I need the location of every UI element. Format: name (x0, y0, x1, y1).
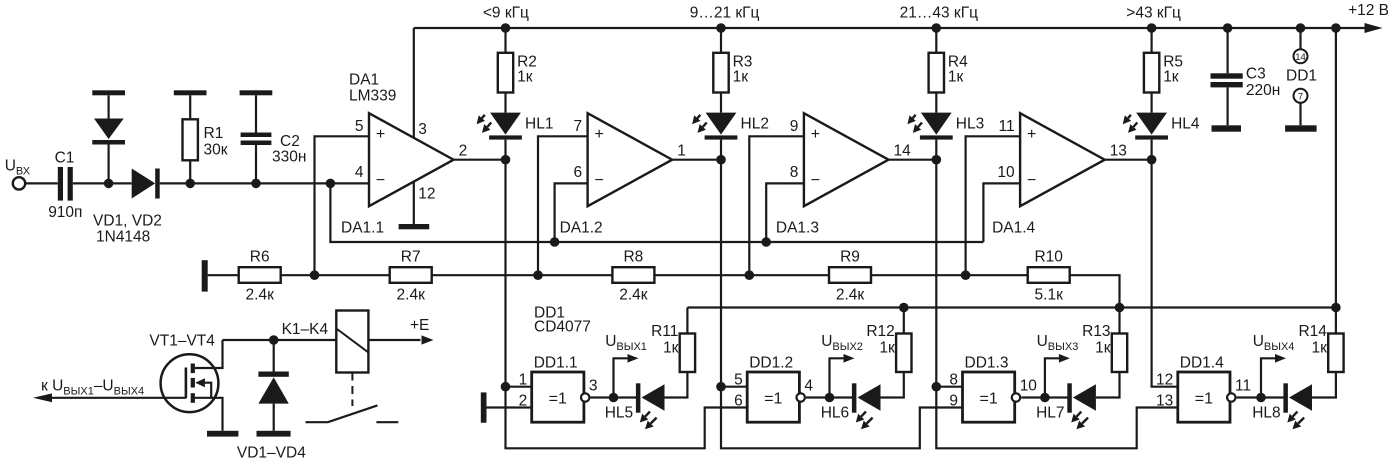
svg-text:HL2: HL2 (741, 116, 769, 133)
node DD1.3 input A junction (932, 382, 942, 392)
svg-text:C3: C3 (1246, 66, 1266, 83)
svg-text:6: 6 (734, 393, 743, 410)
svg-text:910п: 910п (48, 204, 82, 221)
svg-text:R11: R11 (651, 323, 678, 340)
LED HL8 light arrow 1 (1293, 412, 1298, 417)
wire ground to R6 (208, 274, 239, 276)
LED HL6 light arrow 2 (867, 418, 873, 424)
wire ground to R1 (189, 95, 191, 119)
wire DD1.4 output to LED HL8 (1237, 396, 1285, 398)
node bus junction R12 (899, 303, 909, 313)
node rail junction column 4 (1147, 23, 1157, 33)
svg-text:2: 2 (459, 142, 468, 159)
LED HL4 (1136, 113, 1167, 135)
diode VD1 (94, 119, 124, 140)
svg-text:−: − (376, 172, 385, 189)
svg-text:LM339: LM339 (349, 88, 396, 105)
ground bar MOSFET source (207, 431, 238, 437)
svg-text:1: 1 (677, 142, 686, 159)
arrow к Uвых1–Uвых4 (33, 393, 52, 402)
ground bar above C2 (240, 90, 273, 95)
logic gate DD1.4 XNOR (1178, 372, 1230, 422)
wire HL7 to R13 (1096, 372, 1120, 398)
wire rail to R3 (720, 28, 722, 53)
resistor R2 (498, 53, 513, 93)
wire R3 to HL2 (720, 93, 722, 113)
svg-text:=1: =1 (764, 391, 782, 408)
ground bar VD1–VD4 (257, 431, 291, 437)
node output DD1.3 junction (1040, 393, 1050, 403)
wire output tap Uвых2 (830, 358, 845, 397)
svg-text:HL1: HL1 (525, 116, 553, 133)
node C2 junction (251, 179, 261, 189)
svg-text:HL5: HL5 (605, 405, 633, 422)
wire body to source (205, 383, 211, 398)
LED HL3 (921, 113, 952, 135)
svg-text:R1: R1 (204, 125, 224, 142)
svg-text:R7: R7 (401, 249, 421, 266)
wire DD1.2 input A stub (721, 386, 747, 388)
svg-text:R13: R13 (1082, 323, 1110, 340)
svg-text:R12: R12 (866, 323, 894, 340)
capacitor C1 right plate (68, 167, 73, 201)
ground bar above R1 (174, 90, 207, 95)
wire rail to DD1 pin 14 (1299, 28, 1301, 49)
node VD1 junction (104, 179, 114, 189)
svg-text:=1: =1 (549, 391, 567, 408)
svg-text:=1: =1 (979, 391, 997, 408)
svg-text:12: 12 (1156, 372, 1173, 389)
resistor R5 (1144, 53, 1159, 93)
svg-text:−: − (811, 172, 820, 189)
wire column 2 output to DD1.2 input (720, 160, 722, 387)
node signal tap to minus bus (326, 179, 336, 189)
LED HL1 light arrow 1 (482, 115, 485, 118)
LED HL7 cathode bar (1067, 383, 1072, 412)
wire gate to output arrow (52, 397, 186, 399)
wire ground to C2 (255, 95, 257, 132)
ground bar under C3 (1212, 125, 1242, 131)
svg-text:CD4077: CD4077 (534, 319, 591, 336)
wire rail to R2 (504, 28, 506, 53)
MOSFET source stub (191, 393, 195, 403)
node divider junction DA1.3 (745, 270, 755, 280)
svg-text:−: − (1027, 172, 1036, 189)
svg-text:1к: 1к (948, 69, 964, 86)
power pin 7 DD1 (1294, 89, 1308, 103)
node DD1.1 input A junction (501, 382, 511, 392)
wire HL6 to R12 (881, 372, 904, 398)
logic gate DD1.2 XNOR (747, 372, 799, 422)
svg-text:5: 5 (355, 118, 364, 135)
MOSFET body arrow (195, 378, 205, 387)
LED HL5 light arrow 1 (645, 412, 650, 417)
svg-text:HL7: HL7 (1036, 405, 1064, 422)
resistor R9 (829, 267, 871, 283)
wire DD1 pin 7 to ground (1299, 103, 1301, 126)
wire ground to VD1 anode (107, 95, 109, 118)
svg-text:1N4148: 1N4148 (96, 229, 150, 246)
LED HL7 light arrow 1 (1077, 412, 1082, 417)
diode VD2 (132, 169, 156, 199)
svg-text:10: 10 (997, 164, 1015, 181)
svg-text:220н: 220н (1246, 82, 1280, 99)
wire DA1.1 pin 3 to +12V rail (413, 28, 415, 138)
LED HL8 light arrow 2 (1298, 418, 1304, 424)
svg-text:VD1, VD2: VD1, VD2 (93, 213, 162, 230)
svg-text:13: 13 (1110, 142, 1127, 159)
wire DD1.3 output to LED HL7 (1021, 396, 1068, 398)
LED HL2 (706, 113, 737, 135)
ground bar above VD1 (92, 90, 125, 95)
wire node to VD1–VD4 cathode (273, 340, 275, 372)
svg-text:11: 11 (1235, 378, 1251, 395)
svg-text:=1: =1 (1195, 391, 1213, 408)
LED HL5 (642, 384, 665, 410)
inverting bubble DD1.3 output (1012, 393, 1020, 401)
resistor R6 (239, 267, 281, 283)
capacitor C2 bottom plate (241, 141, 272, 146)
arrow Uвых2 (844, 354, 855, 363)
svg-text:7: 7 (573, 118, 582, 135)
resistor R13 (1112, 334, 1127, 373)
resistor R4 (929, 53, 944, 93)
node rail junction DD1 pin 14 (1296, 23, 1306, 33)
svg-text:1к: 1к (1163, 69, 1179, 86)
svg-text:330н: 330н (272, 149, 306, 166)
wire column 2 chain to DD1.3 input B (721, 387, 963, 449)
relay coil K1–K4 (336, 311, 368, 373)
node output DD1.2 junction (825, 393, 835, 403)
LED HL6 (858, 384, 881, 410)
svg-text:DD1.2: DD1.2 (749, 354, 793, 371)
wire R7 to R8 (432, 274, 613, 276)
node divider junction DA1.1 (310, 270, 320, 280)
LED HL8 (1289, 384, 1312, 410)
svg-text:+12 В: +12 В (1348, 2, 1389, 19)
wire output tap Uвых4 (1261, 358, 1276, 397)
svg-text:DD1: DD1 (1286, 67, 1317, 84)
wire rail to R4 (935, 28, 937, 53)
LED HL2 light arrow 2 (703, 123, 707, 127)
input terminal Uвх (13, 177, 25, 189)
svg-text:12: 12 (418, 186, 435, 203)
node VD1–VD4 junction (269, 335, 279, 345)
capacitor C3 top plate (1211, 73, 1243, 78)
wire HL5 to R11 (665, 372, 688, 398)
node rail junction R14 (1331, 23, 1341, 33)
svg-text:2.4к: 2.4к (836, 286, 865, 303)
wire drain node to relay K1–K4 (223, 339, 337, 341)
svg-text:5.1к: 5.1к (1035, 286, 1064, 303)
wire signal minus bus (330, 183, 983, 242)
wire DA1.1 output to column 1 (454, 159, 506, 161)
svg-text:DD1.1: DD1.1 (534, 354, 578, 371)
svg-text:2.4к: 2.4к (397, 286, 426, 303)
LED HL4 cathode bar (1135, 135, 1168, 139)
inverting bubble DD1.4 output (1227, 393, 1235, 401)
svg-text:HL6: HL6 (821, 405, 849, 422)
op-amp comparator DA1.1 (369, 113, 454, 206)
ground bar under DD1 pin 7 (1285, 125, 1317, 131)
wire +12V distribution bus (687, 306, 1336, 308)
wire R5 to HL4 (1150, 93, 1152, 113)
inverting bubble DD1.1 output (581, 393, 589, 401)
resistor R10 (1028, 267, 1070, 283)
svg-text:+E: +E (410, 317, 429, 334)
svg-text:9: 9 (790, 118, 799, 135)
LED HL3 cathode bar (920, 135, 953, 139)
resistor R11 (680, 334, 695, 373)
inverting bubble DD1.2 output (797, 393, 805, 401)
svg-text:DA1: DA1 (349, 72, 379, 89)
arrow Uвых4 (1275, 354, 1286, 363)
node output junction DA1.3 (932, 155, 942, 165)
LED HL6 cathode bar (852, 383, 857, 412)
svg-text:R10: R10 (1034, 249, 1063, 266)
svg-text:30к: 30к (204, 142, 228, 159)
resistor R7 (390, 267, 432, 283)
node rail junction column 2 (716, 23, 726, 33)
op-amp comparator DA1.2 (588, 113, 673, 206)
wire DD1.1 output to LED HL5 (591, 396, 637, 398)
MOSFET body stub (191, 378, 195, 388)
svg-text:DA1.1: DA1.1 (341, 220, 384, 237)
svg-text:6: 6 (573, 164, 582, 181)
ground bar DA1.1 pin 12 (399, 224, 430, 229)
svg-text:+: + (811, 126, 820, 143)
svg-text:R14: R14 (1298, 323, 1327, 340)
LED HL3 light arrow 2 (918, 123, 922, 127)
svg-text:DA1.4: DA1.4 (992, 220, 1035, 237)
svg-text:1к: 1к (663, 339, 679, 356)
diode VD1–VD4 cathode bar (258, 372, 288, 377)
op-amp comparator DA1.4 (1020, 113, 1105, 206)
svg-text:14: 14 (1295, 52, 1306, 63)
svg-text:+: + (1027, 126, 1036, 143)
LED HL2 light arrow 1 (697, 115, 700, 118)
wire DA1.3 − input to signal bus (766, 183, 804, 242)
svg-text:R8: R8 (623, 249, 643, 266)
relay contact fixed (376, 421, 398, 423)
LED HL7 (1073, 384, 1096, 410)
node bus junction R14 column (1331, 303, 1341, 313)
MOSFET gate electrode (185, 368, 188, 399)
svg-text:DA1.3: DA1.3 (776, 220, 819, 237)
resistor R12 (896, 334, 911, 373)
wire source to ground (195, 398, 223, 431)
svg-text:K1–K4: K1–K4 (282, 321, 329, 338)
arrow Uвых1 (628, 354, 639, 363)
wire column 4 output to DD1.4 input A (1152, 160, 1178, 387)
node output junction DA1.4 (1147, 155, 1157, 165)
wire column 1 chain to DD1.2 input B (506, 387, 748, 449)
wire C1 to VD2 (73, 182, 132, 184)
wire VD1 to signal node (107, 145, 109, 184)
MOSFET drain stub (191, 364, 195, 374)
node minus bus junction DA1.2 (550, 237, 560, 247)
capacitor C1 left plate (58, 167, 63, 201)
capacitor C2 top plate (241, 133, 272, 138)
svg-text:14: 14 (894, 142, 912, 159)
transistor VT1–VT4 MOSFET (161, 354, 219, 412)
svg-text:3: 3 (418, 121, 427, 138)
wire DA1.2 + input to divider node (538, 136, 588, 275)
wire rail to R14 (1335, 28, 1337, 334)
svg-text:10: 10 (1020, 378, 1038, 395)
svg-text:11: 11 (999, 118, 1015, 135)
wire R6 to R7 (281, 274, 390, 276)
node output DD1.1 junction (609, 393, 619, 403)
resistor R8 (612, 267, 654, 283)
wire rail to R5 (1150, 28, 1152, 53)
relay actuation dashed link (351, 373, 353, 407)
wire R1 to signal node (189, 160, 191, 183)
logic gate DD1.1 XNOR (532, 372, 584, 422)
wire input terminal to C1 (25, 182, 58, 184)
wire DA1.4 + input to divider node (966, 136, 1021, 275)
svg-text:+: + (376, 126, 385, 143)
wire output tap Uвых3 (1045, 358, 1060, 397)
node DD1.2 input A junction (716, 382, 726, 392)
node output DD1.4 junction (1256, 393, 1266, 403)
wire column 1 output to DD1.1 input (504, 160, 506, 387)
svg-text:<9 кГц: <9 кГц (483, 5, 529, 22)
diode VD1–VD4 (258, 377, 288, 403)
wire R4 to HL3 (935, 93, 937, 113)
node output junction DA1.2 (716, 155, 726, 165)
relay coil diagonal (336, 329, 368, 353)
node rail junction C3 (1223, 23, 1233, 33)
LED HL2 cathode bar (705, 135, 738, 139)
svg-text:9: 9 (949, 393, 958, 410)
wire drain to relay node (195, 340, 223, 368)
svg-text:1к: 1к (733, 69, 749, 86)
wire C3 to ground (1226, 87, 1228, 125)
resistor R1 (183, 119, 198, 160)
wire ground to DD1.1 input 2 (487, 406, 532, 408)
wire HL3 to output node 3 (935, 140, 937, 160)
svg-text:4: 4 (804, 378, 813, 395)
wire bus to R12 top (903, 308, 905, 334)
svg-text:C2: C2 (280, 133, 300, 150)
LED HL7 light arrow 2 (1082, 418, 1088, 424)
node output junction DA1.1 (501, 155, 511, 165)
wire DA1.1 + input to divider node (315, 136, 370, 275)
wire DD1.1 input A stub (506, 386, 532, 388)
node divider junction DA1.2 (533, 270, 543, 280)
LED HL5 cathode bar (636, 383, 641, 412)
resistor R3 (713, 53, 728, 93)
wire R8 to R9 (654, 274, 829, 276)
wire DA1.3 + input to divider node (749, 136, 804, 275)
power pin 14 DD1 (1294, 49, 1308, 63)
relay contact movable (306, 405, 378, 422)
svg-text:13: 13 (1156, 393, 1173, 410)
LED HL1 (490, 113, 521, 135)
wire DA1.2 − input to signal bus (555, 183, 588, 242)
arrow +12V rail end (1365, 23, 1383, 33)
logic gate DD1.3 XNOR (963, 372, 1015, 422)
op-amp comparator DA1.3 (804, 113, 889, 206)
arrow Uвых3 (1059, 354, 1070, 363)
svg-text:R9: R9 (840, 249, 860, 266)
svg-text:DA1.2: DA1.2 (560, 220, 603, 237)
wire C2 to signal node (255, 145, 257, 183)
wire DD1.3 input A stub (936, 386, 962, 388)
ground bar left of R6 (202, 260, 208, 291)
wire DA1.4 output to column 4 (1105, 159, 1152, 161)
wire HL2 to output node 2 (720, 140, 722, 160)
svg-text:2.4к: 2.4к (246, 286, 275, 303)
svg-text:7: 7 (1298, 92, 1303, 103)
wire VD2 to comparator DA1.1 inverting input (160, 182, 369, 184)
node rail junction column 1 (501, 23, 511, 33)
svg-text:2: 2 (519, 393, 528, 410)
wire DA1.2 output to column 2 (672, 159, 721, 161)
svg-text:HL4: HL4 (1171, 116, 1200, 133)
resistor R14 (1328, 334, 1343, 373)
wire output tap Uвых1 (614, 358, 629, 397)
svg-text:2.4к: 2.4к (619, 286, 648, 303)
wire bus to R11 top (686, 308, 688, 334)
wire DA1.1 pin 12 to ground (413, 182, 415, 224)
svg-text:HL8: HL8 (1252, 405, 1280, 422)
svg-text:+: + (595, 126, 604, 143)
LED HL4 light arrow 2 (1133, 123, 1137, 127)
node R10 R13 +12V junction (1115, 303, 1125, 313)
wire R10 to +12V distribution / R13 (1070, 275, 1120, 333)
wire DD1.2 output to LED HL6 (806, 396, 853, 398)
wire HL8 to R14 (1312, 372, 1336, 398)
wire +12V supply rail (414, 27, 1379, 29)
LED HL4 light arrow 1 (1128, 115, 1131, 118)
svg-text:DD1.3: DD1.3 (965, 354, 1009, 371)
wire HL1 to output node 1 (504, 140, 506, 160)
ground bar DD1.1 input 2 (481, 392, 487, 422)
arrow +E (422, 335, 434, 344)
svg-text:−: − (595, 172, 604, 189)
svg-text:4: 4 (355, 164, 364, 181)
wire HL4 to output node 4 (1150, 140, 1152, 160)
wire DA1.4 − input to signal bus (983, 183, 1020, 242)
svg-text:3: 3 (589, 378, 598, 395)
LED HL1 cathode bar (489, 135, 522, 139)
wire rail to C3 (1226, 28, 1228, 73)
svg-text:9…21 кГц: 9…21 кГц (690, 5, 760, 22)
LED HL6 light arrow 1 (861, 412, 866, 417)
wire relay to +E (368, 339, 420, 341)
svg-text:C1: C1 (55, 150, 75, 167)
diode VD2 cathode bar (155, 169, 160, 199)
svg-text:VT1–VT4: VT1–VT4 (149, 333, 215, 350)
svg-text:R6: R6 (250, 249, 270, 266)
svg-text:VD1–VD4: VD1–VD4 (237, 445, 306, 462)
LED HL1 light arrow 2 (487, 123, 491, 127)
svg-text:1к: 1к (517, 69, 533, 86)
LED HL5 light arrow 2 (651, 418, 657, 424)
wire DA1.3 output to column 3 (889, 159, 937, 161)
wire R2 to HL1 (504, 93, 506, 113)
node rail junction column 3 (932, 23, 942, 33)
capacitor C3 bottom plate (1211, 82, 1243, 87)
node divider junction DA1.4 (961, 270, 971, 280)
node R1 junction (185, 179, 195, 189)
svg-text:HL3: HL3 (956, 116, 984, 133)
svg-text:>43 кГц: >43 кГц (1126, 5, 1181, 22)
wire R9 to R10 (871, 274, 1028, 276)
LED HL8 cathode bar (1283, 383, 1288, 412)
